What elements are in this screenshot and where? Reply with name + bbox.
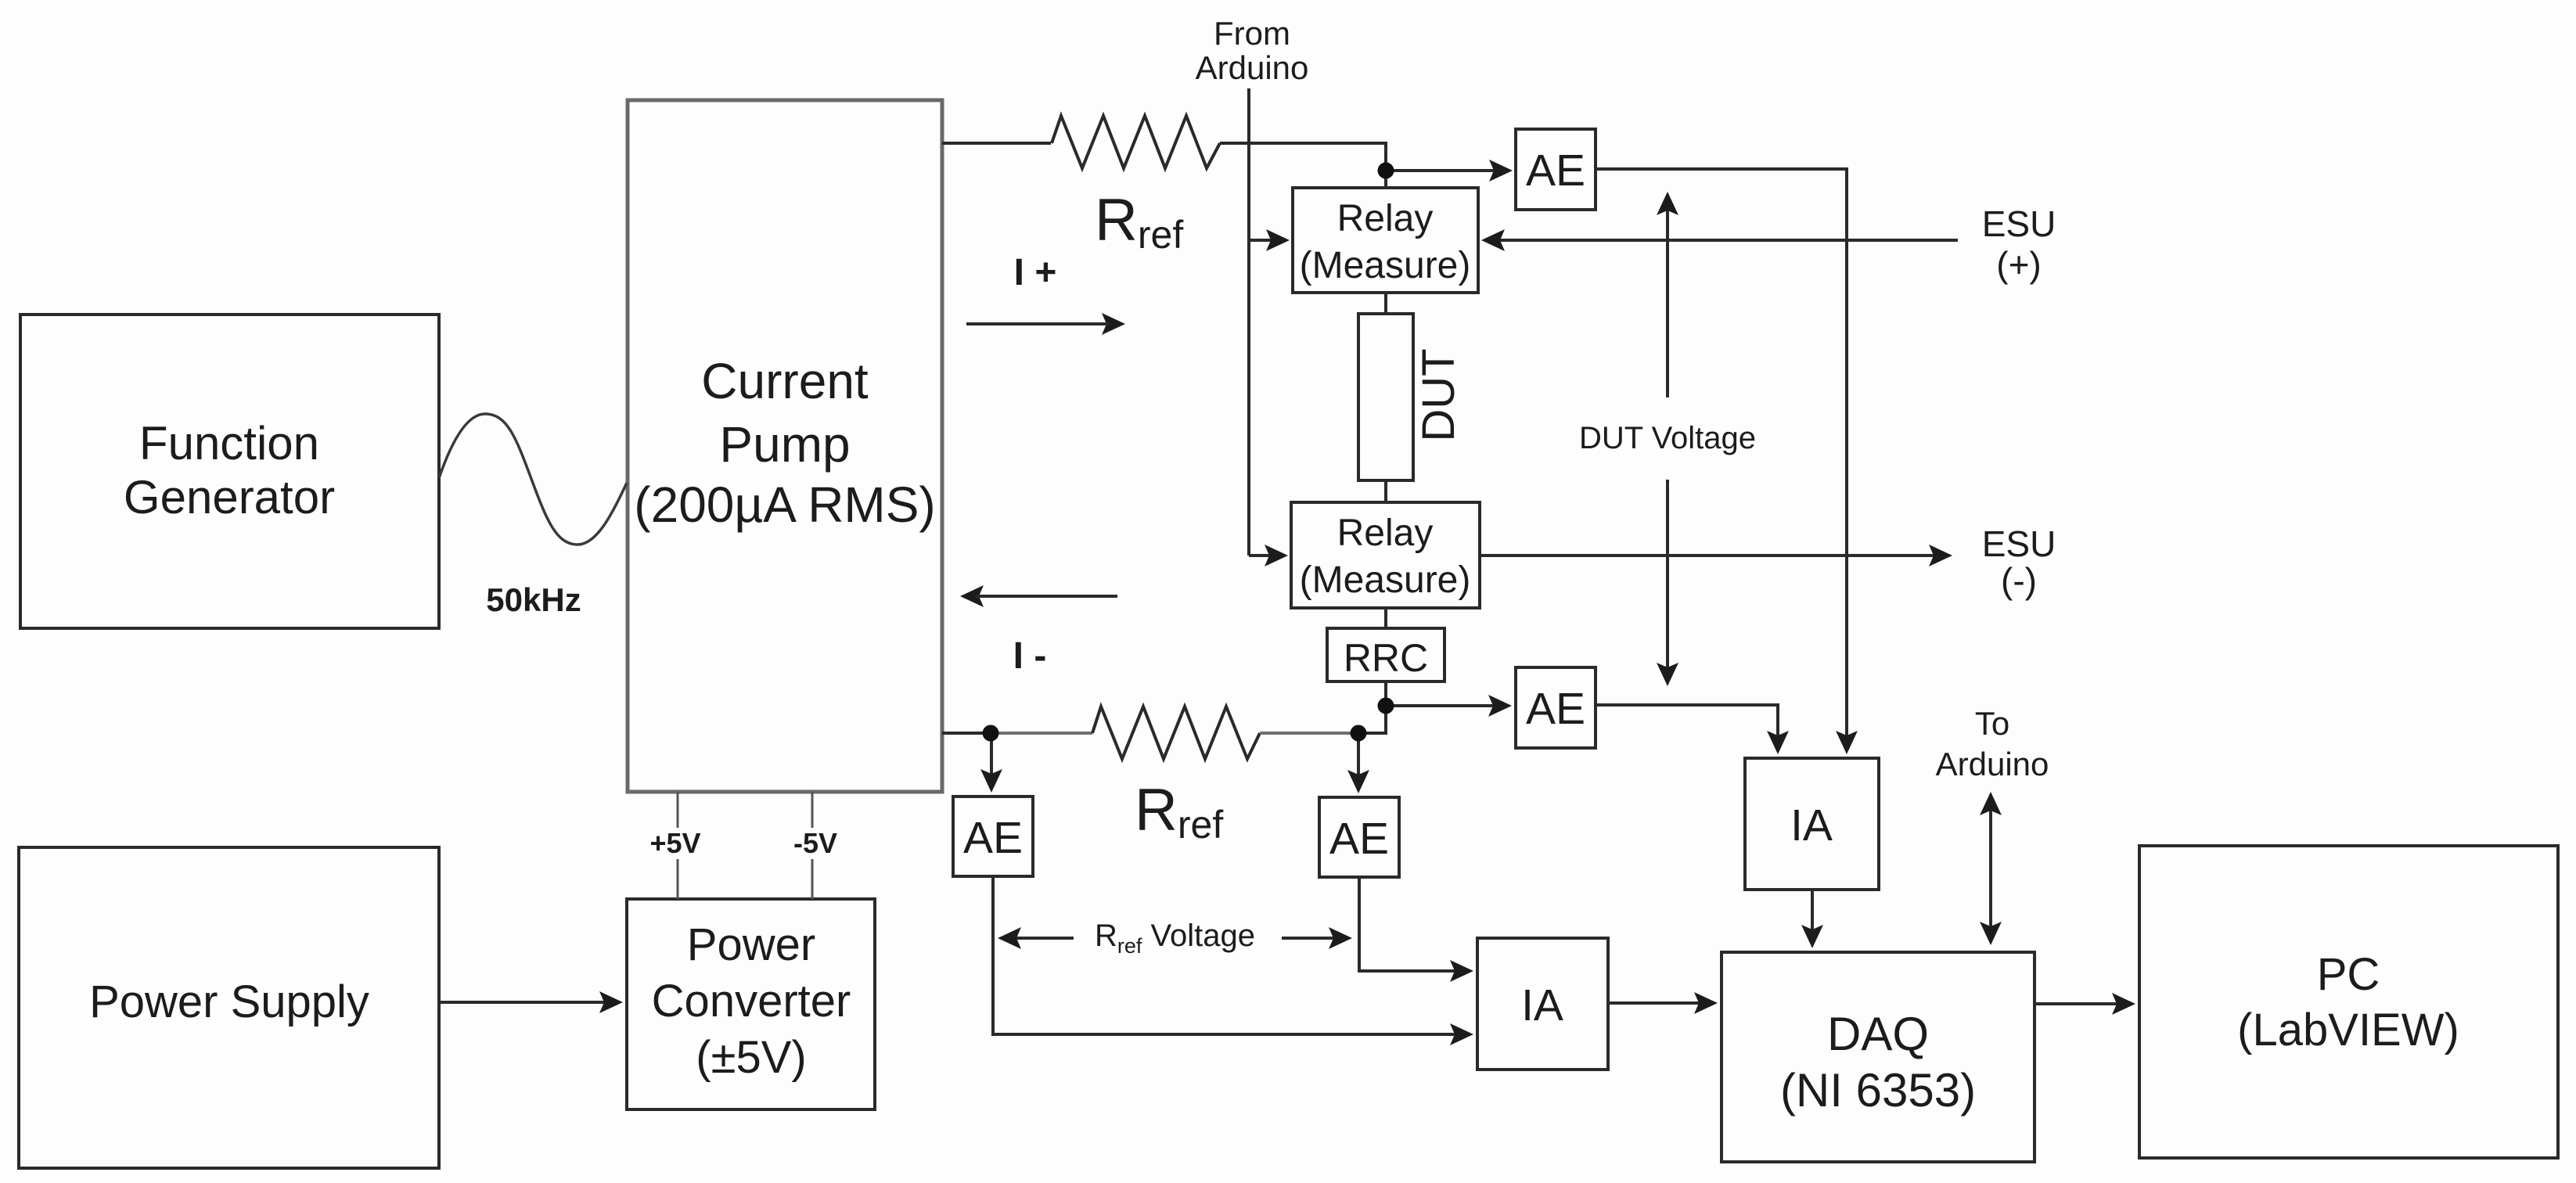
svg-text:(Measure): (Measure) — [1300, 559, 1471, 601]
svg-text:(200µA RMS): (200µA RMS) — [634, 476, 935, 533]
svg-text:AE: AE — [1526, 146, 1585, 196]
svg-text:Generator: Generator — [124, 471, 335, 523]
svg-text:Relay: Relay — [1337, 512, 1434, 554]
svg-text:I -: I - — [1013, 635, 1047, 677]
svg-text:50kHz: 50kHz — [486, 581, 581, 618]
svg-text:ESU: ESU — [1982, 203, 2056, 244]
svg-text:From: From — [1214, 15, 1290, 52]
svg-text:ESU: ESU — [1982, 523, 2056, 564]
svg-text:Function: Function — [139, 417, 319, 469]
svg-text:(±5V): (±5V) — [696, 1032, 806, 1083]
svg-text:Power Supply: Power Supply — [89, 976, 369, 1027]
svg-text:PC: PC — [2317, 949, 2380, 1000]
svg-text:AE: AE — [1329, 814, 1389, 864]
svg-text:DUT Voltage: DUT Voltage — [1579, 421, 1756, 455]
svg-text:I +: I + — [1014, 252, 1057, 293]
svg-text:Power: Power — [687, 919, 815, 970]
svg-text:-5V: -5V — [793, 827, 837, 859]
svg-text:IA: IA — [1790, 800, 1833, 850]
svg-text:Relay: Relay — [1337, 198, 1434, 239]
svg-text:Arduino: Arduino — [1936, 746, 2049, 782]
svg-text:(Measure): (Measure) — [1300, 245, 1471, 286]
svg-text:DAQ: DAQ — [1827, 1008, 1929, 1060]
svg-text:IA: IA — [1521, 980, 1563, 1030]
svg-text:RRC: RRC — [1344, 636, 1428, 680]
svg-text:Arduino: Arduino — [1196, 49, 1309, 86]
svg-text:AE: AE — [1526, 684, 1585, 734]
svg-text:Converter: Converter — [652, 976, 851, 1027]
svg-text:(-): (-) — [2001, 560, 2037, 601]
svg-text:+5V: +5V — [649, 827, 700, 859]
svg-text:Pump: Pump — [719, 416, 850, 473]
svg-text:DUT: DUT — [1413, 348, 1464, 441]
svg-text:Current: Current — [701, 353, 869, 409]
svg-text:AE: AE — [963, 813, 1023, 863]
svg-text:(LabVIEW): (LabVIEW) — [2237, 1005, 2459, 1055]
svg-text:(+): (+) — [1996, 244, 2042, 285]
svg-text:To: To — [1975, 705, 2009, 742]
svg-text:(NI 6353): (NI 6353) — [1780, 1064, 1976, 1116]
